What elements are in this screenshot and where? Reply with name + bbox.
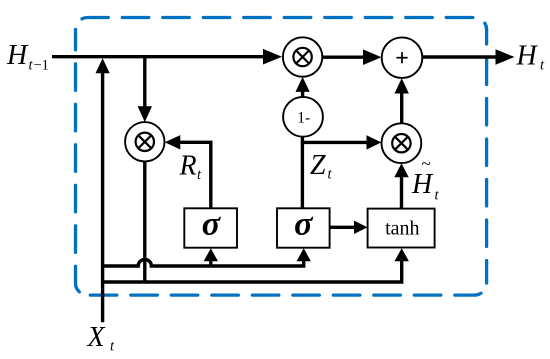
- svg-text:X: X: [87, 322, 106, 353]
- svg-text:Z: Z: [310, 150, 326, 181]
- sigma2 box: [277, 205, 330, 247]
- wire bus1 with hop, into sigma2: [103, 248, 311, 266]
- label H_t: [516, 41, 546, 74]
- svg-text:t: t: [328, 167, 333, 183]
- svg-text:H: H: [411, 169, 434, 200]
- svg-text:t: t: [540, 58, 545, 74]
- wire multiply U2 into adder: [322, 49, 381, 65]
- multiply U1 (reset gate multiply): [125, 122, 164, 161]
- svg-text:H: H: [516, 41, 539, 72]
- wire branch bus1 up into sigma1: [204, 248, 218, 266]
- svg-text:σ: σ: [202, 205, 222, 242]
- svg-text:t: t: [435, 188, 440, 204]
- svg-text:H: H: [6, 40, 29, 71]
- multiply U2 (update gate multiply): [283, 37, 322, 76]
- label R_t: [179, 151, 203, 184]
- svg-text:σ: σ: [294, 205, 314, 242]
- svg-text:t: t: [197, 167, 202, 183]
- wire Z from sigma2 up to one-minus: [301, 137, 304, 208]
- svg-text:t: t: [110, 339, 115, 355]
- label Z_t: [310, 150, 333, 183]
- wire adder output to H_t: [422, 49, 514, 65]
- label X_t: [87, 322, 116, 355]
- svg-text:tanh: tanh: [385, 218, 419, 240]
- wire multiply U3 up into adder: [395, 78, 409, 123]
- wire Z branch right into multiply U3: [302, 135, 381, 149]
- label H~_t (candidate hidden state): [411, 154, 440, 204]
- wire X_t input up into main line: [96, 58, 110, 322]
- svg-text:1-: 1-: [297, 110, 310, 127]
- border dashed box: [76, 18, 487, 296]
- wire multiply U1 output down to bus2: [143, 161, 146, 282]
- wire main H line into multiply U2: [52, 49, 282, 65]
- wire branch down into multiply U1: [138, 57, 152, 122]
- wire R_t feedback from sigma1 into multiply U1: [165, 135, 211, 208]
- svg-text:R: R: [179, 151, 197, 182]
- sigma1 box: [184, 205, 237, 247]
- wire bus2 into tanh: [103, 248, 409, 282]
- label H_{t-1}: [6, 40, 49, 74]
- svg-text:−1: −1: [34, 58, 49, 74]
- wire tanh output up into multiply U3: [394, 163, 408, 208]
- wire one-minus up into multiply U2: [296, 77, 310, 97]
- one-minus circle: [283, 97, 323, 137]
- adder circle: [382, 37, 423, 78]
- wire sigma2 into tanh: [330, 221, 368, 234]
- multiply U3 (candidate multiply): [382, 123, 422, 163]
- tanh box: [368, 209, 435, 248]
